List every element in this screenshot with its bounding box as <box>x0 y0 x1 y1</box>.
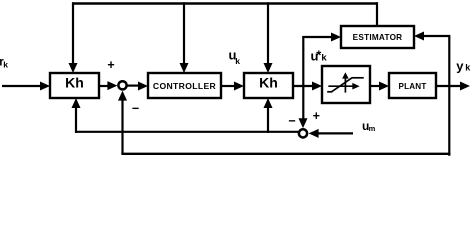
block CONTROLLER <box>148 73 221 98</box>
svg-text:+: + <box>313 109 320 123</box>
wire: CONTROLLER to Kh2 with arrow <box>221 82 244 91</box>
node yk output label <box>456 59 471 74</box>
wire: limiter to PLANT with arrow <box>370 82 389 91</box>
svg-text:k: k <box>235 56 240 66</box>
node um input label <box>362 119 376 133</box>
node uk label <box>229 47 241 66</box>
block Kh1 <box>50 73 99 98</box>
node minus sign at summer1 <box>132 102 139 116</box>
block PLANT <box>389 73 436 98</box>
wire: um input into summer2 with arrow <box>309 129 353 138</box>
wire: branch up into Kh2 bottom with arrow <box>264 98 273 133</box>
summer2 junction circle <box>299 129 307 137</box>
wire: yk feedback vertical right side <box>448 35 450 156</box>
wire: top bus drop into Kh2 with arrow <box>264 2 273 73</box>
node u*k label <box>311 48 328 64</box>
wire: summer2 output left line to Kh1 bottom <box>72 98 300 133</box>
wire: u*k node up to ESTIMATOR input with arrow <box>302 33 341 87</box>
wire: summer1 to CONTROLLER with arrow <box>127 82 148 91</box>
block Kh2 <box>244 73 293 98</box>
node plus sign at summer2 <box>313 109 320 123</box>
wire: PLANT output yk with arrow <box>436 82 470 91</box>
wire: bottom feedback line to summer1 <box>118 91 450 155</box>
block limiter (adjustable saturation) <box>322 66 370 103</box>
wire: estimator output top bus <box>72 2 378 26</box>
wire: rk input arrow into Kh1 <box>2 82 50 91</box>
svg-text:PLANT: PLANT <box>399 82 427 91</box>
node rk input label <box>0 57 8 70</box>
wire: top bus drop into CONTROLLER with arrow <box>180 2 189 73</box>
svg-text:y: y <box>456 59 464 74</box>
summer1 junction circle <box>118 81 126 89</box>
svg-text:k: k <box>321 53 327 64</box>
block ESTIMATOR <box>341 26 414 48</box>
node minus sign at summer2 <box>288 114 295 128</box>
wire: yk feedback into ESTIMATOR right with arrow <box>414 32 450 41</box>
svg-text:Kh: Kh <box>259 75 278 91</box>
svg-text:CONTROLLER: CONTROLLER <box>153 81 217 91</box>
node plus sign at summer1 <box>107 58 114 72</box>
svg-text:ESTIMATOR: ESTIMATOR <box>353 33 403 42</box>
svg-text:Kh: Kh <box>65 75 84 91</box>
wire: Kh2 output to limiter with arrow, node at x=303.5 <box>293 82 322 91</box>
wire: top bus drop into Kh1 with arrow <box>69 2 78 73</box>
svg-text:−: − <box>288 114 295 128</box>
wire: u*k node down to summer2 with arrow <box>299 86 308 128</box>
svg-text:+: + <box>107 58 114 72</box>
svg-text:m: m <box>369 124 376 133</box>
svg-text:k: k <box>3 59 8 69</box>
svg-text:−: − <box>132 102 139 116</box>
wire: Kh1 to summer1 with arrow <box>99 81 117 90</box>
